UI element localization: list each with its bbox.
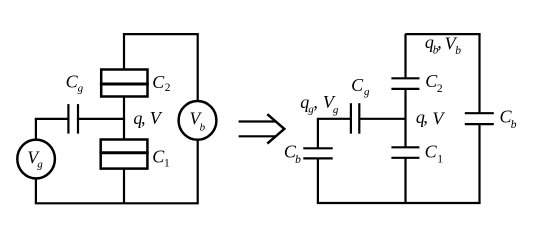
tunnel junction C2 bbox=[100, 70, 149, 97]
svg-text:b: b bbox=[200, 121, 206, 133]
svg-text:,: , bbox=[141, 108, 146, 128]
svg-text:b: b bbox=[511, 119, 517, 131]
label q, V (left circuit node) bbox=[133, 108, 162, 128]
label C1 (right circuit) bbox=[425, 142, 444, 166]
label C2 (right circuit) bbox=[425, 71, 443, 95]
label Cg (right circuit) bbox=[351, 75, 370, 98]
capacitor Cg (right circuit) bbox=[351, 103, 359, 134]
wire: left circuit top-left vertical (C2 top to top rail) bbox=[123, 34, 125, 70]
label qb, Vb bbox=[425, 32, 461, 57]
capacitor C1 (right circuit) bbox=[391, 147, 419, 158]
label Cg (left circuit) bbox=[66, 72, 84, 95]
voltage source Vg bbox=[17, 140, 55, 179]
svg-text:V: V bbox=[150, 108, 163, 128]
svg-text:2: 2 bbox=[165, 82, 171, 94]
wire: C2 bottom through node to C1 top bbox=[404, 89, 406, 147]
label Cb (right side) bbox=[500, 107, 517, 132]
svg-text:g: g bbox=[333, 104, 339, 116]
voltage source Vb bbox=[179, 101, 217, 140]
wire: Vg top vertical bbox=[35, 119, 37, 140]
implication arrow lower shaft bbox=[239, 135, 277, 137]
svg-text:,: , bbox=[437, 32, 442, 52]
wire: Cg right plate to middle node bbox=[78, 118, 125, 120]
wire: Vb bottom to bottom rail bbox=[197, 140, 199, 204]
svg-text:b: b bbox=[455, 45, 461, 57]
wire: right vertical from Cb to bottom rail bbox=[478, 124, 480, 203]
wire: Vg corner to Cg left plate bbox=[36, 118, 69, 120]
svg-text:,: , bbox=[423, 107, 428, 127]
label Cb (left side) bbox=[284, 142, 301, 166]
capacitor Cb (right side) bbox=[465, 113, 494, 124]
wire: left vertical from qg corner to left Cb bbox=[317, 119, 319, 149]
wire: middle row right segment (Cg to center node) bbox=[359, 118, 405, 120]
svg-text:V: V bbox=[432, 109, 445, 129]
svg-text:b: b bbox=[295, 154, 301, 166]
wire: right vertical from top rail to Cb bbox=[478, 34, 480, 113]
svg-text:C: C bbox=[425, 142, 438, 162]
capacitor Cg (left circuit) bbox=[68, 104, 78, 134]
wire: C1 bottom to bottom rail bbox=[123, 169, 125, 204]
implication arrow (double arrow) upper shaft bbox=[239, 120, 277, 122]
wire: left circuit bottom rail bbox=[36, 202, 198, 204]
wire: Vg bottom to bottom rail bbox=[35, 178, 37, 203]
wire: middle row left segment (corner to Cg) bbox=[318, 118, 351, 120]
wire: left circuit right drop from top rail to Vb bbox=[197, 34, 199, 102]
svg-text:1: 1 bbox=[437, 153, 443, 165]
svg-text:C: C bbox=[351, 75, 364, 95]
label Vg bbox=[27, 147, 43, 170]
wire: C2 bottom to C1 top bbox=[123, 97, 125, 140]
wire: center vertical from top rail to C2 bbox=[404, 34, 406, 77]
svg-text:C: C bbox=[152, 72, 165, 92]
svg-text:g: g bbox=[78, 83, 84, 95]
wire: left circuit top rail bbox=[124, 33, 198, 35]
wire: right circuit top rail bbox=[406, 33, 479, 35]
wire: right circuit bottom rail bbox=[318, 202, 480, 204]
svg-text:,: , bbox=[313, 92, 318, 112]
label C1 (left circuit) bbox=[152, 147, 170, 170]
wire: left vertical from Cb to bottom rail bbox=[317, 158, 319, 203]
svg-text:g: g bbox=[37, 158, 43, 170]
label Vb bbox=[190, 109, 206, 134]
svg-text:g: g bbox=[364, 86, 370, 98]
label qg, Vg bbox=[300, 92, 339, 116]
capacitor C2 (right circuit) bbox=[391, 78, 419, 89]
label C2 (left circuit) bbox=[152, 72, 171, 94]
wire: C1 bottom to bottom rail bbox=[404, 158, 406, 203]
tunnel junction C1 bbox=[99, 140, 148, 169]
label q, V (right circuit node) bbox=[416, 107, 446, 129]
svg-text:2: 2 bbox=[437, 83, 443, 95]
capacitor Cb (left side) bbox=[303, 148, 332, 158]
svg-text:1: 1 bbox=[164, 158, 170, 170]
implication arrow head bbox=[267, 114, 284, 143]
